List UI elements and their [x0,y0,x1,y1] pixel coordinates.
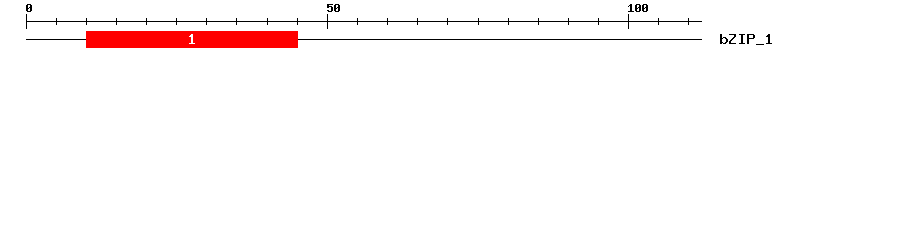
background [0,0,900,58]
minor tick 20 [146,18,147,25]
minor tick 10 [86,18,87,25]
minor tick 15 [116,18,117,25]
minor tick 60 [387,18,388,25]
minor tick 95 [598,18,599,25]
ruler label 50 [327,4,340,12]
minor tick 110 [688,18,689,25]
minor tick 70 [447,18,448,25]
minor tick 80 [508,18,509,25]
major tick 0 [26,14,27,29]
domain name label bZIP_1 [720,34,772,45]
minor tick 75 [478,18,479,25]
protein backbone line [26,39,702,40]
minor tick 105 [658,18,659,25]
minor tick 30 [206,18,207,25]
ruler scale line [26,21,702,22]
minor tick 35 [236,18,237,25]
major tick 100 [628,14,629,29]
minor tick 40 [267,18,268,25]
minor tick 55 [357,18,358,25]
domain box 1 (red) [86,31,298,48]
ruler label 100 [628,4,648,12]
minor tick 90 [568,18,569,25]
major tick 50 [327,14,328,29]
minor tick 45 [297,18,298,25]
minor tick 65 [417,18,418,25]
domain number 1 (white) [189,34,195,44]
ruler label 0 [26,4,32,12]
minor tick 85 [538,18,539,25]
minor tick 5 [56,18,57,25]
minor tick 25 [176,18,177,25]
